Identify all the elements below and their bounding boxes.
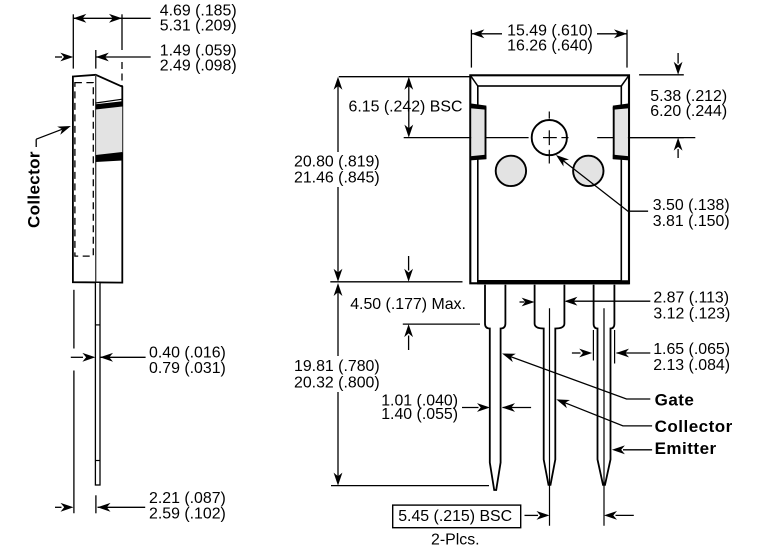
svg-text:16.26 (.640): 16.26 (.640) [507, 38, 593, 55]
svg-text:5.45 (.215) BSC: 5.45 (.215) BSC [398, 508, 512, 525]
collector leader arrow [36, 126, 71, 147]
left mold circle [496, 156, 526, 186]
leader 3.50/3.81 hole diameter [556, 155, 730, 230]
extension line body bottom [330, 281, 462, 283]
package body front view outline [470, 75, 629, 283]
extension line lead tips [331, 485, 489, 487]
gate label leader [502, 354, 694, 410]
svg-text:20.32 (.800): 20.32 (.800) [294, 375, 380, 392]
dimension 20.80/21.46 body height [294, 77, 380, 282]
dimension 6.15 BSC [339, 77, 471, 138]
svg-text:1.40 (.055): 1.40 (.055) [381, 406, 458, 423]
svg-text:Gate: Gate [655, 390, 695, 409]
dimension 5.45 BSC box [393, 505, 634, 548]
svg-text:2.49 (.098): 2.49 (.098) [160, 58, 237, 75]
svg-text:6.15 (.242) BSC: 6.15 (.242) BSC [349, 99, 463, 116]
svg-text:20.80 (.819): 20.80 (.819) [294, 153, 380, 170]
pin 2 collector [535, 285, 565, 526]
left heatsink tab front view [470, 103, 486, 160]
hole centerline [404, 137, 696, 139]
svg-text:2.59 (.102): 2.59 (.102) [149, 505, 226, 522]
svg-text:19.81 (.780): 19.81 (.780) [294, 358, 380, 375]
dashed internal outline side view [75, 83, 93, 257]
pin 1 gate [485, 285, 505, 490]
dimension 4.50 Max shoulder length [350, 256, 480, 350]
svg-text:Emitter: Emitter [655, 439, 717, 458]
svg-text:Collector: Collector [655, 417, 733, 436]
pin 3 emitter [594, 285, 615, 526]
svg-text:3.12 (.123): 3.12 (.123) [653, 306, 730, 323]
heatsink tab side view [96, 99, 123, 162]
right mold circle [573, 156, 603, 186]
extension line body edge down [73, 290, 75, 514]
dimension 0.40/0.79 lead thickness [71, 345, 226, 377]
dimension 1.65/2.13 lead thickness [572, 330, 730, 374]
emitter label leader [612, 439, 717, 458]
dimension 1.01/1.40 lead width [381, 392, 531, 423]
svg-text:2.87 (.113): 2.87 (.113) [653, 289, 729, 306]
mounting hole [532, 112, 567, 164]
svg-text:1.65 (.065): 1.65 (.065) [653, 341, 730, 358]
svg-text:Collector: Collector [24, 151, 43, 228]
dimension 4.69/5.31 top width [73, 3, 236, 87]
svg-text:6.20 (.244): 6.20 (.244) [650, 103, 727, 120]
lead side view [95, 282, 100, 485]
dimension 2.87/3.12 center lead width [520, 289, 731, 322]
right heatsink tab front view [613, 103, 629, 160]
dimension 19.81/20.32 lead length [294, 283, 380, 486]
svg-text:2.13 (.084): 2.13 (.084) [653, 357, 730, 374]
dimension 5.38/6.20 hole center from top [628, 53, 727, 158]
svg-text:5.31 (.209): 5.31 (.209) [160, 18, 237, 35]
svg-text:0.79 (.031): 0.79 (.031) [149, 360, 226, 377]
svg-text:2-Plcs.: 2-Plcs. [431, 532, 480, 548]
svg-text:3.81 (.150): 3.81 (.150) [653, 213, 730, 230]
collector label leader [556, 399, 732, 436]
dimension 2.21/2.59 lead offset [55, 490, 226, 522]
svg-text:3.50 (.138): 3.50 (.138) [653, 197, 730, 214]
package body side view [73, 75, 122, 283]
svg-text:4.50 (.177) Max.: 4.50 (.177) Max. [350, 296, 466, 313]
collector label side view [24, 151, 43, 228]
dimension 1.49/2.49 face thickness [55, 43, 237, 75]
dimension 15.49/16.26 body width [471, 23, 627, 68]
svg-text:21.46 (.845): 21.46 (.845) [294, 170, 380, 187]
